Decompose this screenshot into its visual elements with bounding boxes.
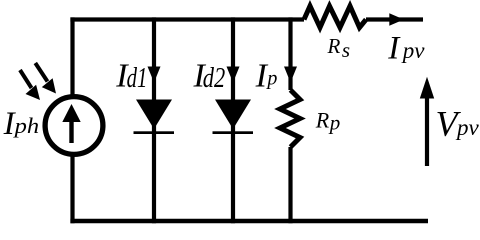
resistor Rs <box>304 6 366 28</box>
svg-text:Vpv: Vpv <box>436 104 480 144</box>
diode D1 <box>136 100 172 130</box>
current arrow Id2 <box>227 67 240 83</box>
svg-text:Ip: Ip <box>255 58 278 95</box>
current source Iph circle <box>45 97 103 155</box>
light arrow 2 <box>35 63 47 82</box>
wire bottom bus <box>70 219 428 223</box>
current arrow Id1 <box>148 67 161 83</box>
wire top bus <box>70 17 304 21</box>
svg-text:Iph: Iph <box>3 106 40 142</box>
light arrow 1 <box>20 70 32 88</box>
wire Rp branch lower <box>288 147 292 223</box>
wire left vertical lower <box>70 154 74 224</box>
svg-text:Rp: Rp <box>315 107 340 134</box>
wire Rp branch upper <box>288 17 292 90</box>
svg-text:d1: d1 <box>127 63 148 94</box>
svg-text:Rs: Rs <box>327 34 351 62</box>
svg-text:Ipv: Ipv <box>387 31 425 67</box>
resistor Rp <box>280 90 300 147</box>
wire left vertical upper <box>70 17 74 97</box>
wire diode D1 branch <box>152 17 156 223</box>
wire Rs to output <box>366 17 423 21</box>
current arrow Ip <box>284 67 297 83</box>
wire diode D2 branch <box>231 17 235 223</box>
svg-text:d2: d2 <box>203 63 226 94</box>
diode D2 <box>215 100 251 130</box>
voltage arrow Vpv <box>425 95 429 166</box>
current arrow Ipv <box>389 13 404 26</box>
current source arrow <box>69 119 73 143</box>
